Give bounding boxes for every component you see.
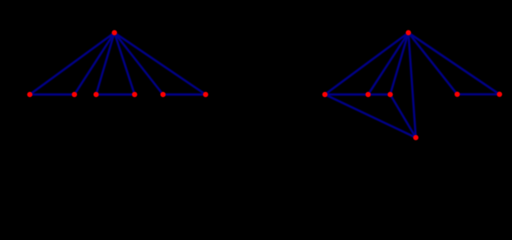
node v4 <box>131 91 138 98</box>
node v6 <box>202 91 209 98</box>
wire edge w2-w3 <box>368 93 390 95</box>
node w5 <box>496 91 503 98</box>
wire edge w1-w2 <box>325 93 368 95</box>
wire edge A'-w2 <box>368 33 408 95</box>
wire edge v5-v6 <box>163 93 206 95</box>
node v2 <box>71 91 78 98</box>
node v1 <box>26 91 33 98</box>
wire edge v1-v2 <box>30 93 75 95</box>
wire edge w4-w5 <box>457 93 499 95</box>
wire edge w3-B <box>390 95 416 138</box>
node v5 <box>160 91 167 98</box>
wire edge A'-B <box>408 33 415 138</box>
node w4 <box>454 91 461 98</box>
wire edge A-v1 (left graph) <box>30 33 115 95</box>
wire edge A'-w4 <box>408 33 457 95</box>
wire edge A'-w5 <box>408 33 499 95</box>
wire edge A-v3 <box>96 33 114 95</box>
node A (left apex) <box>111 29 118 36</box>
wire edge A'-w3 <box>390 33 408 95</box>
wire edge A-v5 <box>114 33 163 95</box>
node w1 <box>322 91 329 98</box>
wire edge v3-v4 <box>96 93 135 95</box>
node w2 <box>365 91 372 98</box>
node A' (right apex) <box>405 29 412 36</box>
wire edge A-v6 <box>114 33 205 95</box>
wire edge w1-B <box>325 95 416 138</box>
node v3 <box>93 91 100 98</box>
wire edge A-v2 <box>74 33 114 95</box>
node B (right bottom) <box>412 134 419 141</box>
node w3 <box>387 91 394 98</box>
wire edge A-v4 <box>114 33 134 95</box>
wire edge A'-w1 (right graph) <box>325 33 409 95</box>
